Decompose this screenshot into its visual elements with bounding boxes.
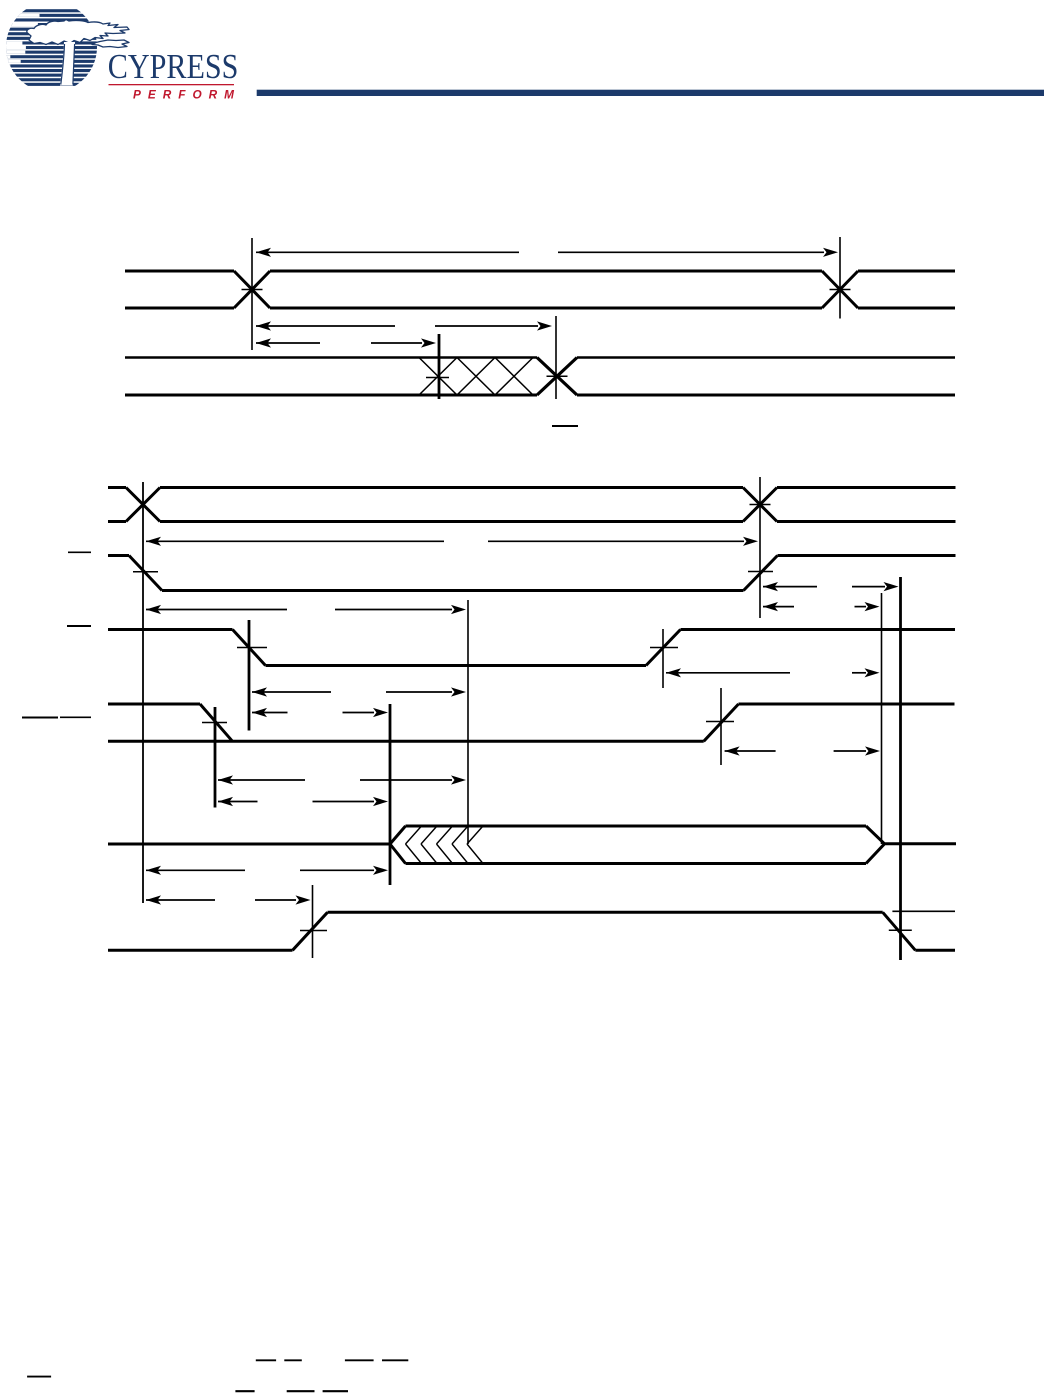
svg-text:CYPRESS: CYPRESS (108, 48, 239, 86)
svg-text:PERFORM: PERFORM (133, 88, 241, 102)
